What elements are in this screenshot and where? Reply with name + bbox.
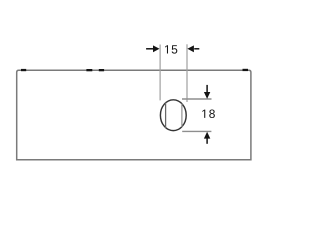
dimension 15: right extension line	[186, 44, 188, 102]
dimension 18: top arrow and tail	[204, 85, 210, 99]
mounting tab 2	[86, 69, 92, 71]
hole inner right edge line	[181, 104, 183, 127]
oval knockout hole	[160, 100, 186, 131]
dimension 18: bottom leader line	[182, 130, 211, 132]
panel outline (front view rectangle)	[17, 70, 251, 159]
mounting tab 3	[99, 69, 104, 71]
dimension 15: left arrow and tail	[146, 45, 159, 52]
dimension 18: top leader line	[182, 98, 212, 100]
mounting tab 1 (top-left)	[21, 69, 26, 71]
dimension 15: left extension line	[159, 45, 161, 101]
mounting tab 4 (top-right)	[243, 69, 249, 71]
dimension 15: value label	[165, 45, 177, 53]
dimension 18: bottom arrow and tail	[204, 132, 210, 144]
dimension 15: right arrow and tail	[187, 45, 199, 52]
hole inner left edge line	[165, 103, 167, 129]
dimension 18: value label	[202, 110, 215, 119]
